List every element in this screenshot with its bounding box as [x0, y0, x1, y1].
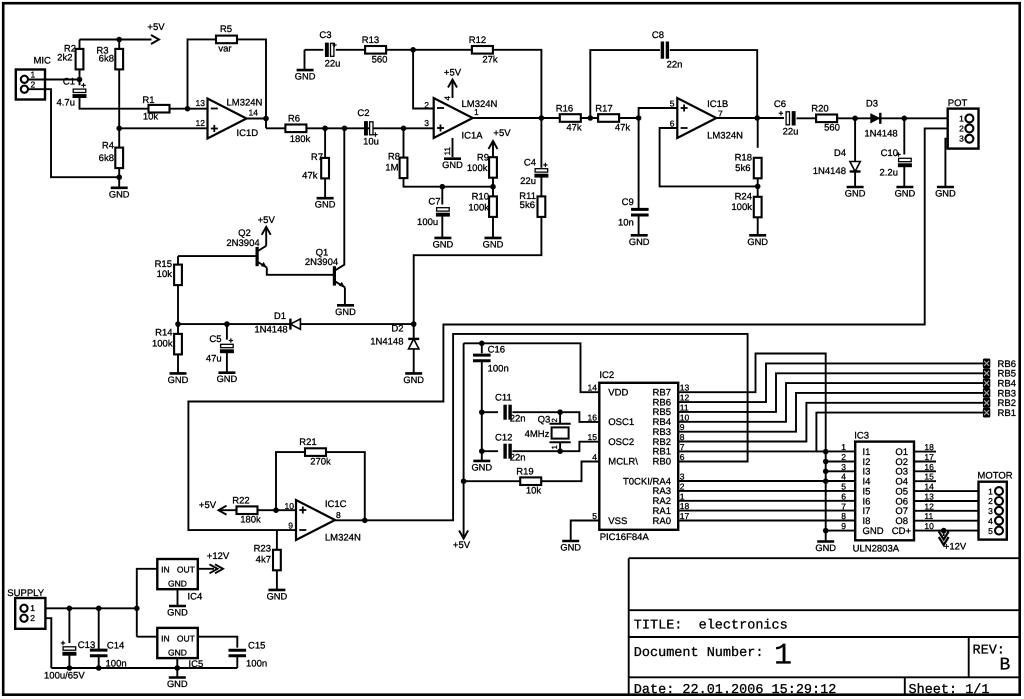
svg-text:+12V: +12V: [207, 551, 230, 562]
svg-text:2: 2: [959, 123, 964, 133]
svg-text:1N4148: 1N4148: [813, 166, 846, 177]
svg-text:12: 12: [196, 118, 206, 128]
svg-text:6: 6: [670, 119, 675, 129]
svg-text:VDD: VDD: [608, 388, 628, 399]
svg-text:22u: 22u: [783, 127, 799, 138]
svg-text:IN: IN: [161, 565, 170, 575]
svg-text:B: B: [1000, 656, 1011, 676]
svg-text:Document Number:: Document Number:: [634, 646, 764, 661]
svg-text:OUT: OUT: [177, 634, 195, 644]
svg-text:1N4148: 1N4148: [370, 337, 403, 348]
svg-text:C15: C15: [248, 641, 265, 652]
svg-text:12: 12: [680, 393, 690, 403]
svg-text:R18: R18: [735, 153, 752, 164]
svg-text:2k2: 2k2: [57, 53, 72, 64]
svg-text:+5V: +5V: [258, 215, 276, 226]
svg-text:4: 4: [988, 516, 993, 526]
svg-text:POT: POT: [948, 98, 968, 109]
svg-text:1N4148: 1N4148: [864, 129, 897, 140]
svg-text:Sheet: 1/1: Sheet: 1/1: [909, 683, 990, 698]
svg-text:D1: D1: [274, 311, 286, 322]
svg-text:47k: 47k: [566, 123, 582, 134]
svg-text:5k6: 5k6: [735, 163, 750, 174]
svg-text:9: 9: [680, 422, 685, 432]
svg-text:11: 11: [443, 146, 452, 155]
svg-text:47u: 47u: [206, 354, 222, 365]
svg-text:R9: R9: [477, 153, 489, 164]
svg-text:R17: R17: [595, 104, 612, 115]
svg-text:4MHz: 4MHz: [525, 429, 550, 440]
svg-text:10: 10: [680, 412, 690, 422]
svg-text:GND: GND: [935, 189, 956, 199]
svg-text:22u: 22u: [520, 176, 536, 187]
svg-text:C16: C16: [488, 345, 505, 356]
svg-text:10: 10: [924, 521, 934, 531]
svg-text:11: 11: [680, 402, 689, 412]
svg-text:GND: GND: [403, 375, 424, 385]
svg-text:Date: 22.01.2006 15:29:12: Date: 22.01.2006 15:29:12: [634, 683, 837, 698]
svg-text:100n: 100n: [106, 659, 127, 670]
svg-text:2: 2: [680, 481, 685, 491]
svg-text:22u: 22u: [325, 59, 341, 70]
svg-text:100u/65V: 100u/65V: [44, 671, 85, 682]
svg-text:3: 3: [424, 118, 429, 128]
svg-text:180k: 180k: [240, 515, 261, 526]
svg-text:+12V: +12V: [944, 542, 967, 553]
svg-text:47k: 47k: [302, 171, 318, 182]
svg-text:R5: R5: [220, 24, 232, 35]
svg-text:14: 14: [924, 482, 934, 492]
svg-text:100n: 100n: [246, 659, 267, 670]
svg-text:1N4148: 1N4148: [254, 325, 287, 336]
svg-text:1: 1: [774, 640, 792, 674]
svg-text:CD+: CD+: [892, 526, 912, 537]
svg-text:OSC1: OSC1: [608, 417, 634, 428]
svg-text:16: 16: [924, 462, 934, 472]
svg-text:ULN2803A: ULN2803A: [853, 544, 900, 555]
svg-text:7: 7: [680, 442, 685, 452]
svg-text:GND: GND: [267, 591, 288, 601]
svg-text:+5V: +5V: [493, 128, 511, 139]
svg-text:1: 1: [474, 107, 479, 117]
svg-text:C4: C4: [524, 158, 536, 169]
svg-text:C12: C12: [495, 433, 512, 444]
svg-text:GND: GND: [895, 189, 916, 199]
svg-text:10k: 10k: [526, 486, 542, 497]
svg-text:+5V: +5V: [444, 68, 462, 79]
svg-text:+5V: +5V: [453, 540, 471, 551]
svg-text:12: 12: [924, 501, 934, 511]
svg-text:47k: 47k: [615, 123, 631, 134]
svg-text:R12: R12: [469, 35, 486, 46]
svg-text:R16: R16: [556, 104, 573, 115]
svg-text:C6: C6: [774, 99, 786, 110]
svg-text:560: 560: [372, 55, 388, 66]
svg-text:10k: 10k: [143, 112, 159, 123]
svg-text:14: 14: [249, 108, 259, 118]
svg-text:GND: GND: [747, 237, 768, 247]
svg-text:9: 9: [841, 521, 846, 531]
svg-text:R6: R6: [288, 114, 300, 125]
svg-text:GND: GND: [442, 160, 463, 170]
svg-text:2.2u: 2.2u: [880, 168, 899, 179]
svg-text:180k: 180k: [290, 134, 311, 145]
svg-text:MOTOR: MOTOR: [977, 471, 1012, 482]
svg-text:IC3: IC3: [854, 431, 869, 442]
svg-text:C10: C10: [881, 148, 898, 159]
svg-text:GND: GND: [560, 543, 581, 553]
svg-text:GND: GND: [109, 189, 130, 199]
svg-text:100k: 100k: [468, 203, 489, 214]
svg-text:R21: R21: [299, 437, 316, 448]
svg-text:100u: 100u: [417, 217, 438, 228]
svg-text:9: 9: [288, 521, 293, 531]
svg-text:C8: C8: [652, 30, 664, 41]
svg-text:GND: GND: [845, 189, 866, 199]
svg-text:GND: GND: [167, 608, 188, 618]
svg-text:C3: C3: [319, 30, 331, 41]
svg-text:C9: C9: [622, 197, 634, 208]
svg-text:PIC16F84A: PIC16F84A: [600, 532, 650, 543]
svg-text:2N3904: 2N3904: [226, 238, 259, 249]
svg-text:22n: 22n: [510, 453, 526, 464]
svg-text:3: 3: [841, 462, 846, 472]
svg-text:D2: D2: [391, 324, 403, 335]
svg-text:13: 13: [680, 383, 690, 393]
svg-text:3: 3: [680, 472, 685, 482]
svg-text:Q3: Q3: [538, 415, 551, 426]
svg-text:GND: GND: [168, 579, 187, 589]
svg-text:4: 4: [592, 452, 597, 462]
svg-text:GND: GND: [167, 679, 188, 689]
svg-text:R14: R14: [155, 328, 172, 339]
svg-text:22n: 22n: [667, 60, 683, 71]
svg-text:100n: 100n: [488, 364, 509, 375]
svg-text:10k: 10k: [157, 269, 173, 280]
svg-text:4: 4: [443, 95, 452, 100]
svg-text:13: 13: [924, 492, 934, 502]
svg-text:R8: R8: [388, 152, 400, 163]
svg-text:560: 560: [824, 123, 840, 134]
svg-text:2: 2: [988, 496, 993, 506]
svg-text:R1: R1: [142, 95, 154, 106]
svg-text:15: 15: [924, 472, 934, 482]
svg-text:R24: R24: [735, 192, 752, 203]
svg-text:OUT: OUT: [177, 565, 195, 575]
svg-text:10: 10: [285, 501, 295, 511]
svg-text:LM324N: LM324N: [707, 131, 743, 142]
svg-text:GND: GND: [815, 543, 836, 553]
svg-text:270k: 270k: [310, 457, 331, 468]
svg-text:2: 2: [30, 613, 35, 623]
svg-text:17: 17: [680, 511, 690, 521]
svg-text:18: 18: [680, 501, 690, 511]
svg-text:+5V: +5V: [199, 500, 217, 511]
svg-text:100k: 100k: [152, 339, 173, 350]
svg-text:2: 2: [31, 79, 36, 89]
svg-text:5: 5: [670, 99, 675, 109]
svg-text:22n: 22n: [510, 414, 526, 425]
svg-text:15: 15: [588, 432, 598, 442]
svg-text:11: 11: [924, 511, 933, 521]
svg-text:1: 1: [31, 70, 36, 80]
svg-text:GND: GND: [863, 526, 884, 537]
svg-text:17: 17: [924, 452, 934, 462]
svg-text:R19: R19: [516, 467, 533, 478]
svg-text:var: var: [218, 44, 231, 55]
svg-text:R20: R20: [811, 104, 828, 115]
svg-text:8: 8: [336, 510, 341, 520]
svg-text:10u: 10u: [363, 137, 379, 148]
svg-text:D3: D3: [866, 99, 878, 110]
svg-text:1: 1: [550, 445, 559, 449]
svg-text:27k: 27k: [482, 55, 498, 66]
svg-text:IC1D: IC1D: [237, 128, 259, 139]
svg-text:1: 1: [30, 603, 35, 613]
svg-text:7: 7: [718, 109, 723, 119]
svg-text:MCLR\: MCLR\: [608, 457, 638, 468]
svg-text:VSS: VSS: [608, 516, 627, 527]
svg-text:GND: GND: [168, 648, 187, 658]
svg-text:5k6: 5k6: [520, 200, 535, 211]
svg-text:18: 18: [924, 442, 934, 452]
svg-text:GND: GND: [471, 462, 492, 472]
svg-text:6k8: 6k8: [99, 153, 114, 164]
svg-text:3: 3: [988, 506, 993, 516]
svg-text:1M: 1M: [385, 163, 398, 174]
svg-text:IN: IN: [161, 634, 170, 644]
svg-text:GND: GND: [483, 239, 504, 249]
svg-text:1: 1: [841, 442, 846, 452]
svg-text:4k7: 4k7: [256, 555, 271, 566]
svg-text:8: 8: [680, 432, 685, 442]
svg-text:R22: R22: [232, 496, 249, 507]
svg-text:MIC: MIC: [34, 56, 52, 67]
svg-text:RB1: RB1: [998, 408, 1016, 419]
svg-text:4.7u: 4.7u: [57, 98, 76, 109]
svg-text:C14: C14: [107, 641, 124, 652]
svg-text:D4: D4: [834, 148, 846, 159]
svg-text:GND: GND: [629, 237, 650, 247]
svg-text:LM324N: LM324N: [462, 99, 498, 110]
svg-text:2: 2: [550, 418, 559, 422]
svg-text:OSC2: OSC2: [608, 437, 634, 448]
svg-text:1: 1: [988, 486, 993, 496]
svg-text:IC1A: IC1A: [462, 130, 484, 141]
svg-text:IC4: IC4: [188, 592, 203, 603]
svg-text:SUPPLY: SUPPLY: [7, 588, 44, 599]
svg-text:R13: R13: [362, 35, 379, 46]
svg-text:RA0: RA0: [653, 516, 671, 527]
svg-text:GND: GND: [315, 200, 336, 210]
svg-text:6: 6: [680, 452, 685, 462]
svg-text:2N3904: 2N3904: [305, 257, 338, 268]
svg-text:100k: 100k: [467, 163, 488, 174]
svg-text:R7: R7: [311, 152, 323, 163]
svg-text:RB0: RB0: [653, 457, 671, 468]
svg-text:IC1C: IC1C: [325, 499, 347, 510]
svg-text:14: 14: [588, 383, 598, 393]
svg-text:R4: R4: [102, 141, 114, 152]
svg-text:1: 1: [959, 113, 964, 123]
svg-text:13: 13: [196, 98, 206, 108]
svg-text:C7: C7: [428, 197, 440, 208]
svg-text:3: 3: [959, 134, 964, 144]
svg-text:GND: GND: [168, 375, 189, 385]
svg-text:R10: R10: [472, 192, 489, 203]
svg-text:2: 2: [841, 452, 846, 462]
svg-text:C1: C1: [63, 77, 75, 88]
svg-text:10n: 10n: [618, 218, 634, 229]
svg-text:GND: GND: [295, 72, 316, 82]
svg-text:GND: GND: [217, 374, 238, 384]
svg-text:IC2: IC2: [599, 370, 614, 381]
svg-text:GND: GND: [335, 307, 356, 317]
svg-text:R23: R23: [254, 544, 271, 555]
svg-text:1: 1: [680, 491, 685, 501]
svg-text:GND: GND: [433, 239, 454, 249]
svg-text:LM324N: LM324N: [325, 533, 361, 544]
svg-text:100k: 100k: [731, 202, 752, 213]
svg-text:TITLE: electronics: TITLE: electronics: [634, 619, 788, 634]
svg-text:5: 5: [988, 526, 993, 536]
svg-text:6k8: 6k8: [99, 54, 114, 65]
svg-text:C5: C5: [209, 334, 221, 345]
svg-text:16: 16: [588, 412, 598, 422]
svg-text:C11: C11: [495, 393, 512, 404]
svg-text:5: 5: [592, 511, 597, 521]
svg-text:C2: C2: [357, 108, 369, 119]
svg-text:+5V: +5V: [147, 22, 165, 33]
